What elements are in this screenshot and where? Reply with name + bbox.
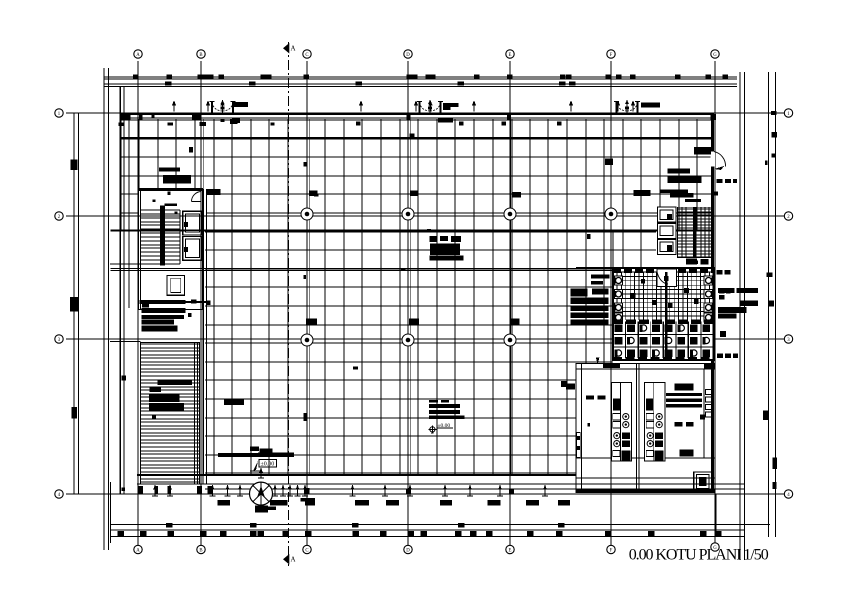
- column circles on axes: [301, 208, 313, 220]
- toilet right fixtures column: [704, 276, 713, 285]
- dark bars beside doors: [443, 103, 459, 107]
- bars left of toilets: [570, 288, 587, 296]
- stair rail dark bar: [160, 206, 165, 266]
- toilet left fixtures column: [615, 276, 623, 285]
- terrace L-blocks: [218, 500, 231, 506]
- svg-text:C: C: [305, 549, 308, 554]
- grid bubbles bottom A-G: [134, 545, 142, 553]
- kitchen equipment strip 2: [645, 382, 665, 461]
- wall corner block: [120, 113, 131, 121]
- right door arc: [714, 152, 726, 167]
- left margin connector lines: [110, 341, 141, 343]
- right boundary double line inner: [739, 72, 741, 560]
- kitchen equipment strip 1: [611, 382, 631, 461]
- right margin squares: [771, 111, 777, 115]
- svg-text:D: D: [406, 549, 410, 554]
- bottom dimension squares: [118, 531, 125, 537]
- elevator cell 2: [183, 236, 203, 260]
- stair block top-left walls: [139, 189, 203, 310]
- toilet block outline: [613, 268, 714, 360]
- hatched stair dark bars: [158, 381, 193, 385]
- section marker top: [283, 43, 289, 54]
- stair block lower room: [167, 276, 184, 296]
- hatched stair bottom squares: [138, 486, 143, 494]
- stair treads top-left: [141, 210, 180, 264]
- centre arrow above compass: [260, 468, 262, 478]
- dark label block upper-left: [159, 167, 180, 171]
- terrace tick arrows: [154, 485, 156, 496]
- top dimension squares row2: [165, 82, 172, 86]
- svg-text:F: F: [610, 549, 613, 554]
- level bars bottom center: [218, 453, 258, 457]
- section cut line A-A: [287, 42, 289, 566]
- svg-text:A: A: [291, 45, 296, 53]
- block below compass: [255, 506, 268, 513]
- kitchen top marks: [603, 363, 620, 368]
- svg-text:C: C: [305, 53, 308, 58]
- marker above toilets: [693, 261, 699, 265]
- beam double line mid hall: [111, 267, 614, 269]
- dashes right of wall: [717, 179, 723, 183]
- left dark bars row: [140, 300, 186, 304]
- left boundary double line inner: [73, 113, 75, 494]
- thick grid line below top wall: [120, 137, 711, 139]
- right stair dark bars: [634, 190, 651, 196]
- bottom boundary lines: [110, 524, 770, 526]
- dark bar right of hatch: [224, 399, 244, 405]
- entrance double door B axis: [211, 102, 213, 114]
- grid bubbles right 1-4: [784, 109, 792, 117]
- section marker bottom: [283, 554, 289, 565]
- entrance double door F axis: [615, 102, 617, 114]
- top boundary lines: [104, 76, 737, 78]
- toilet lower stall fixtures: [615, 325, 623, 333]
- upper band bottom thick line: [111, 229, 712, 231]
- kitchen outline: [576, 364, 715, 493]
- bottom squares upper row: [166, 523, 173, 528]
- svg-text:A: A: [291, 556, 296, 564]
- dark blocks near right door: [694, 147, 711, 155]
- kitchen nested squares bottom right: [694, 472, 712, 491]
- misc marks upper band: [207, 189, 221, 195]
- axis-3 key marks: [306, 319, 317, 326]
- right margin label bars beside toilets: [718, 288, 735, 293]
- right wall door gap: [711, 152, 716, 167]
- small marks in hall: [304, 413, 308, 421]
- svg-text:G: G: [713, 53, 717, 58]
- grid bubbles top A-G: [134, 50, 142, 58]
- grid bubbles left 1-4: [55, 109, 63, 117]
- svg-text:E: E: [509, 549, 512, 554]
- toilet lower stall rows: [613, 334, 714, 336]
- furniture block center: [430, 236, 438, 242]
- line below axis4 right: [715, 494, 717, 537]
- toilet top dark band: [613, 268, 655, 273]
- floor tile grid: [120, 119, 711, 475]
- flag marks above column circles: [309, 191, 318, 197]
- toilet center wall: [665, 272, 667, 358]
- svg-text:F: F: [610, 53, 613, 58]
- stair room marks: [167, 192, 170, 195]
- right stair treads: [677, 207, 713, 257]
- svg-text:A: A: [136, 53, 140, 58]
- mark left of kitchen: [561, 381, 567, 387]
- level mark bar stack center hall: [429, 400, 438, 403]
- level label 0.00: [259, 460, 277, 468]
- stair room door arc: [192, 192, 202, 202]
- top dimension squares: [133, 74, 139, 79]
- svg-text:A: A: [136, 549, 140, 554]
- svg-text:D: D: [406, 53, 410, 58]
- dashes below axis3 right: [717, 354, 723, 359]
- horizontal axis lines 1-4: [66, 112, 785, 114]
- kitchen left wall marks: [577, 433, 581, 458]
- right stair elevator cells: [657, 207, 676, 222]
- kitchen bars right: [675, 384, 694, 391]
- door arrows along top wall: [173, 103, 175, 112]
- toilet bottom dark band: [613, 357, 714, 361]
- building right wall: [711, 113, 714, 493]
- axis D and E wall checkers: [406, 489, 411, 494]
- axis C dark mark: [304, 488, 310, 494]
- corridor wall right of left stair: [202, 189, 204, 484]
- kitchen right edge boxes: [706, 390, 713, 395]
- building top wall: [120, 113, 715, 116]
- wall corner marks: [119, 123, 125, 127]
- kitchen block right lower: [679, 449, 693, 456]
- axis companion doubles in hall: [203, 119, 205, 475]
- small tick near F axis: [587, 234, 591, 239]
- toilet left upper wall: [612, 231, 614, 268]
- kitchen dashes center right: [675, 422, 683, 427]
- svg-text:B: B: [199, 549, 202, 554]
- kitchen top right corner block: [704, 364, 715, 370]
- left boundary double line: [103, 68, 105, 550]
- toilet upper half wall tile mesh: [614, 272, 713, 320]
- elevator cell 1: [183, 211, 203, 235]
- right boundary double line outer: [768, 72, 770, 537]
- main hall bottom wall: [137, 474, 576, 476]
- svg-text:E: E: [509, 53, 512, 58]
- hatched stair left: [141, 343, 200, 485]
- dashes left of kitchen strip: [586, 396, 594, 400]
- vertical axis lines A-G: [137, 61, 139, 546]
- svg-text:B: B: [199, 53, 202, 58]
- dark squares above toilet right: [686, 259, 697, 265]
- svg-text:0.00 KOTU PLANI 1/50: 0.00 KOTU PLANI 1/50: [629, 547, 769, 564]
- right stair tick: [714, 192, 718, 196]
- compass circle bottom center: [250, 482, 273, 505]
- axis wall crossing checker marks: [197, 113, 201, 119]
- below-wall tick squares: [356, 122, 361, 126]
- toilet lobby: [657, 269, 677, 287]
- svg-text:±0.00: ±0.00: [261, 462, 275, 468]
- left margin wall ticks: [70, 159, 77, 170]
- toilet scattered dark marks upper: [631, 293, 636, 299]
- building left wall: [119, 86, 121, 494]
- entrance double door center: [418, 102, 420, 114]
- toilet middle dark band: [613, 319, 714, 324]
